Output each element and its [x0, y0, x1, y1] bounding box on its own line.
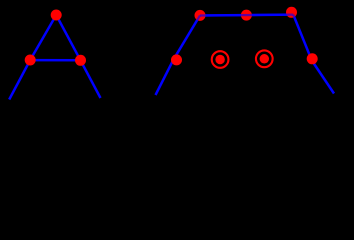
wire: right graph, edge P3-Q2: [293, 15, 312, 61]
wire: right graph, edge P1-Q1: [173, 15, 200, 59]
node P3: right graph top-right vertex: [286, 7, 297, 18]
wire: left graph, triangle base edge B-C: [30, 59, 80, 62]
node C: left graph bottom-right vertex: [75, 55, 86, 66]
wire: right graph, top horizontal edge P1-P3 through P2: [200, 13, 293, 16]
wire: left graph, pendant edge from node C down-right: [81, 60, 101, 98]
node Q2: right graph mid-right vertex: [307, 53, 318, 64]
node R2: circled isolated vertex (dot with ring): [256, 50, 273, 67]
wire: right graph, pendant edge from Q2 down-right: [312, 61, 334, 94]
wire: overlay of top edge passing over vertices P1, P2, P3: [194, 15, 299, 27]
wire: left graph, triangle edge A-B: [30, 15, 56, 60]
node P1: right graph top-left vertex: [195, 10, 206, 21]
wire: left graph, pendant edge from node B down-left: [9, 60, 30, 100]
node B: left graph bottom-left vertex: [25, 55, 36, 66]
node P2: right graph top-middle vertex: [241, 10, 252, 21]
wire: right graph, pendant edge from Q1 down-left: [156, 60, 174, 95]
node A: left graph apex vertex: [51, 10, 62, 21]
wire: left graph, triangle edge A-C: [56, 15, 80, 60]
node Q1: right graph mid-left vertex: [171, 54, 182, 65]
node R1: circled isolated vertex (dot with ring): [212, 51, 229, 68]
